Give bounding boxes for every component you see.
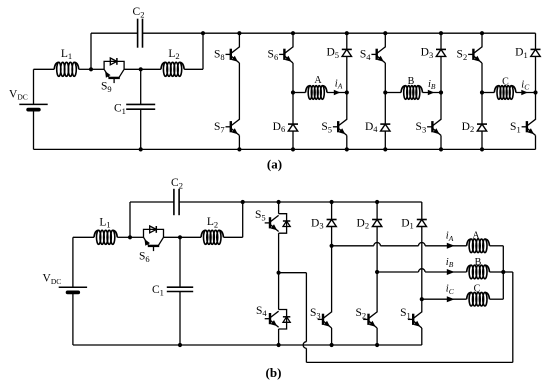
node S5 top rail (b) — [277, 200, 281, 204]
caption (b) — [266, 365, 282, 380]
transistor S3 (b) — [318, 246, 332, 345]
label L2 (a) — [168, 48, 179, 61]
transistor S6 (a) — [279, 33, 293, 92]
node bottom rail leg S7 (a) — [237, 147, 241, 151]
wire VDC top to L1 (b) — [73, 236, 94, 238]
label C (a) — [502, 76, 509, 87]
label S9 — [101, 81, 112, 94]
transistor S8 (a) — [226, 33, 240, 120]
node bottom rail leg D6 (a) — [291, 147, 295, 151]
svg-text:B: B — [475, 257, 482, 268]
wire node to L2 (a) — [141, 68, 161, 70]
label L1 (b) — [99, 216, 110, 229]
diode D3 (b) — [327, 202, 337, 246]
label D1 (b) — [401, 217, 414, 230]
node top rail leg S4 (a) — [383, 31, 387, 35]
label C1 (a) — [114, 103, 126, 116]
svg-text:A: A — [314, 75, 322, 86]
label iC (a) — [521, 79, 530, 91]
label A (a) — [314, 75, 322, 86]
inductor L1 (a) — [54, 62, 79, 76]
node phase row leg D1 (a) — [533, 90, 537, 94]
label S5 (b) — [255, 209, 266, 222]
caption (a) — [267, 156, 282, 171]
wire node to S9 (a) — [91, 68, 104, 70]
transistor S7 (a) — [226, 119, 240, 149]
label S3 (a) — [416, 121, 427, 134]
node bottom rail leg S3 (a) — [439, 147, 443, 151]
node S5-S4 midpoint (b) — [277, 271, 281, 275]
node S4 bottom rail (b) — [277, 343, 281, 347]
transistor S5 (b) — [265, 202, 291, 273]
wire S6 to node (b) — [163, 236, 180, 238]
svg-text:A: A — [472, 230, 480, 241]
node phase row leg S2 (a) — [480, 90, 484, 94]
svg-text:C: C — [502, 76, 509, 87]
node top rail leg D5 (a) — [345, 31, 349, 35]
label D3 (a) — [421, 46, 434, 59]
node phase row leg D5 (a) — [345, 90, 349, 94]
bottom rail (b) — [73, 344, 422, 346]
node top rail leg S8 (a) — [237, 31, 241, 35]
node phase row leg D3 (a) — [439, 90, 443, 94]
node phase leg S1 (b) — [420, 297, 424, 301]
wire phase B right with current arrow iB (a) — [423, 90, 442, 95]
label S1 (a) — [510, 121, 521, 134]
label iC (b) — [446, 283, 455, 295]
wire load B to right connector (b) — [490, 271, 504, 273]
wire VDC top to L1 (a) — [34, 68, 55, 70]
node S9-C1-L2 junction (a) — [139, 67, 143, 71]
inductor load B (b) — [467, 265, 490, 279]
diode D1 (a) — [531, 33, 541, 92]
wire midpoint to return line with hop over rail (b) — [279, 273, 513, 363]
bottom rail (a) — [34, 148, 536, 150]
label D2 (a) — [462, 121, 475, 134]
inductor L2 (a) — [161, 62, 184, 76]
wire node up to top rail (a) — [91, 33, 138, 69]
transistor S4 (b) — [265, 273, 291, 345]
wire node to L2 (b) — [180, 236, 201, 238]
label S4 (a) — [360, 49, 371, 62]
label L2 (b) — [207, 216, 218, 229]
label iA (a) — [335, 78, 343, 90]
node bottom rail leg S2 (b) — [375, 343, 379, 347]
inductor phase C (a) — [494, 86, 516, 100]
inductor L2 (b) — [201, 230, 224, 244]
node top rail leg D3 (b) — [330, 200, 334, 204]
inductor load C (b) — [467, 292, 490, 306]
label S5 (a) — [321, 121, 332, 134]
label iB (a) — [428, 79, 436, 91]
node bottom rail leg S3 (b) — [330, 343, 334, 347]
diode D3 (a) — [436, 33, 446, 92]
capacitor C1 (b) — [167, 237, 193, 345]
capacitor C2 (b) — [174, 189, 179, 215]
label VDC (a) — [9, 88, 28, 101]
top rail (a) — [143, 32, 536, 34]
node load neutral (b) — [501, 270, 505, 274]
inductor L1 (b) — [94, 230, 117, 244]
node S6-C1-L2 junction (b) — [178, 235, 182, 239]
node L1-S6 junction (b) — [128, 235, 132, 239]
label D3 (b) — [311, 217, 324, 230]
label S7 (a) — [214, 121, 225, 134]
diode D2 (a) — [477, 93, 487, 150]
diode D4 (a) — [380, 93, 390, 150]
node bottom rail leg D4 (a) — [383, 147, 387, 151]
inductor phase A (a) — [306, 86, 328, 100]
wire phase B left (a) — [385, 92, 401, 94]
IGBT S6 (b) — [144, 226, 164, 251]
wire phase A with hops and arrow iA (b) — [332, 243, 467, 249]
label A (b) — [472, 230, 480, 241]
node phase row leg S6 (a) — [291, 90, 295, 94]
label iB (b) — [446, 257, 454, 269]
wire phase A right with current arrow iA (a) — [327, 90, 347, 95]
transistor S1 (a) — [522, 93, 536, 150]
node C1 bottom rail (a) — [139, 147, 143, 151]
label S8 (a) — [214, 49, 225, 62]
node top rail leg D2 (b) — [375, 200, 379, 204]
diode D5 (a) — [342, 33, 352, 92]
top rail (b) — [179, 201, 422, 203]
transistor S3 (a) — [427, 93, 441, 150]
node top rail leg S2 (a) — [480, 31, 484, 35]
node L2 top rail (a) — [201, 31, 205, 35]
wire load return vertical (b) — [503, 272, 513, 362]
wire load A to right connector (b) — [490, 246, 504, 272]
wire phase C with arrow iC (b) — [422, 296, 467, 302]
label iA (b) — [446, 231, 454, 243]
label D5 (a) — [326, 46, 339, 59]
transistor S4 (a) — [371, 33, 385, 92]
label S3 (b) — [310, 307, 321, 320]
wire L2 to top rail (a) — [184, 33, 203, 69]
node bottom rail leg S5 (a) — [345, 147, 349, 151]
node L2 top rail (b) — [241, 200, 245, 204]
label B (b) — [475, 257, 482, 268]
label S4 (b) — [256, 305, 267, 318]
label S2 (a) — [457, 49, 468, 62]
node L1-S9 junction (a) — [89, 67, 93, 71]
diode D6 (a) — [288, 93, 298, 150]
svg-text:(a): (a) — [267, 156, 282, 171]
label C2 (a) — [133, 6, 145, 19]
label C (b) — [474, 284, 481, 295]
capacitor C1 (a) — [126, 69, 155, 149]
inductor load A (b) — [467, 239, 490, 253]
transistor S5 (a) — [333, 93, 347, 150]
wire L1 to node (b) — [117, 236, 130, 238]
label S2 (b) — [355, 307, 366, 320]
inductor phase B (a) — [401, 86, 423, 100]
svg-text:C: C — [474, 284, 481, 295]
node phase leg S2 (b) — [375, 270, 379, 274]
node top rail leg D1 (b) — [0, 0, 1, 1]
transistor S2 (a) — [468, 33, 482, 92]
wire phase B with hop and arrow iB (b) — [377, 269, 467, 275]
svg-text:B: B — [408, 76, 415, 87]
label C2 (b) — [171, 177, 183, 190]
label S1 (b) — [400, 307, 411, 320]
transistor S2 (b) — [363, 272, 377, 345]
node top rail leg S6 (a) — [291, 31, 295, 35]
label D4 (a) — [365, 121, 378, 134]
wire node to S6 (b) — [130, 236, 144, 238]
label D6 (a) — [273, 121, 286, 134]
diode D2 (b) — [372, 202, 382, 272]
label D1 (a) — [515, 46, 528, 59]
label S6 (a) — [268, 49, 279, 62]
diode D1 (b) — [417, 202, 427, 299]
node top rail leg D3 (a) — [439, 31, 443, 35]
label D2 (b) — [357, 217, 370, 230]
wire phase A left (a) — [293, 92, 306, 94]
label L1 (a) — [61, 48, 72, 61]
node bottom rail leg D2 (a) — [480, 147, 484, 151]
transistor S1 (b) — [408, 299, 422, 345]
wire S9 to node (a) — [124, 68, 141, 70]
wire node up to top rail (b) — [130, 202, 174, 237]
battery VDC (b) — [59, 237, 87, 345]
node phase leg S3 (b) — [330, 244, 334, 248]
battery VDC (a) — [19, 69, 47, 149]
label S6 (b) — [139, 251, 150, 264]
label VDC (b) — [43, 273, 62, 286]
label C1 (b) — [152, 284, 164, 297]
node phase row leg S4 (a) — [383, 90, 387, 94]
label B (a) — [408, 76, 415, 87]
wire phase C right with current arrow iC (a) — [516, 90, 536, 95]
wire load C to right connector (b) — [490, 272, 504, 299]
wire L1 to node (a) — [79, 68, 91, 70]
node C1 bottom rail (b) — [178, 343, 182, 347]
wire phase C left (a) — [482, 92, 494, 94]
capacitor C2 (a) — [138, 19, 143, 48]
wire L2 to top rail (b) — [224, 202, 243, 237]
svg-text:(b): (b) — [266, 365, 282, 380]
IGBT S9 — [104, 58, 124, 83]
